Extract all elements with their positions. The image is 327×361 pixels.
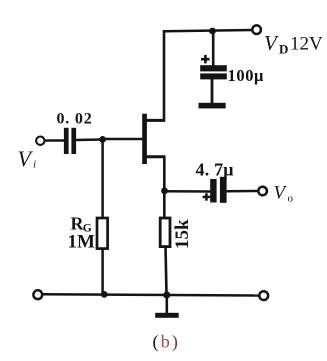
resistor RG: [97, 218, 108, 249]
svg-text:i: i: [33, 159, 36, 171]
terminal bottom-left: [33, 290, 42, 299]
wire bottom rail: [43, 294, 260, 295]
wire RG to bottom rail: [101, 249, 104, 296]
svg-text:15k: 15k: [172, 219, 193, 249]
wire R2 to bottom rail: [166, 246, 167, 295]
wire gate node down to RG: [101, 139, 104, 218]
transistor Q1 (JFET): [142, 114, 165, 164]
wire source vertical: [163, 156, 166, 219]
ground (supply bypass): [199, 103, 226, 109]
terminal Vo: [258, 187, 267, 196]
svg-text:V: V: [264, 31, 279, 55]
node gate junction: [99, 136, 106, 143]
node rail junction source: [163, 291, 170, 298]
resistor R2 15k: [160, 218, 170, 247]
svg-text:(b): (b): [153, 332, 181, 353]
svg-text:0. 02: 0. 02: [57, 111, 93, 128]
svg-text:100μ: 100μ: [228, 66, 265, 85]
wire C1 to gate node: [76, 138, 103, 141]
wire C2 to ground: [211, 79, 214, 104]
wire drain vertical: [164, 31, 167, 121]
svg-text:1M: 1M: [68, 232, 96, 253]
terminal Vi: [36, 137, 44, 145]
svg-text:D: D: [279, 42, 288, 57]
wire top supply rail: [165, 30, 252, 31]
node source junction: [161, 187, 168, 194]
capacitor C2 plates: [200, 65, 227, 79]
capacitor C1 0.02: [64, 128, 76, 154]
node rail junction RG: [101, 291, 108, 298]
wire C3 to Vo terminal: [227, 190, 259, 193]
terminal bottom-right: [259, 291, 268, 300]
ground (main): [155, 295, 179, 318]
svg-text:4. 7μ: 4. 7μ: [196, 160, 234, 180]
terminal VD: [252, 25, 261, 34]
wire gate: [103, 138, 143, 141]
node supply junction: [209, 28, 216, 35]
capacitor C3 4.7u: [210, 177, 226, 203]
wire input terminal to C1: [45, 139, 65, 142]
wire source node to C3: [165, 190, 211, 193]
svg-text:o: o: [288, 193, 294, 205]
capacitor C2 100u : top stub: [212, 31, 215, 66]
capacitor C2 polarity +: [201, 55, 210, 64]
svg-text:12V: 12V: [290, 34, 323, 55]
capacitor C3 polarity +: [203, 193, 211, 201]
